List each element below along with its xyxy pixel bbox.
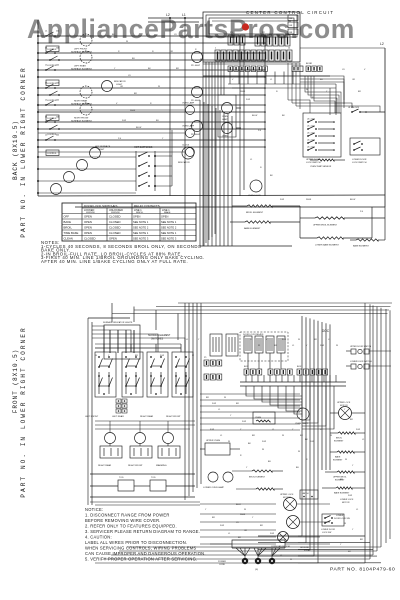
svg-text:1: 1	[215, 48, 217, 50]
svg-text:CLOCK: CLOCK	[182, 145, 190, 147]
svg-text:LOCK SWITCH: LOCK SWITCH	[352, 162, 367, 164]
svg-text:OVEN LAMP: OVEN LAMP	[182, 102, 195, 105]
svg-text:W: W	[345, 459, 347, 461]
svg-text:UL LOCK: UL LOCK	[307, 119, 316, 121]
svg-text:SEE NOTE 2: SEE NOTE 2	[133, 226, 149, 230]
svg-text:BR: BR	[360, 539, 363, 541]
svg-text:SEE NOTE 1: SEE NOTE 1	[133, 220, 149, 224]
svg-text:OVEN LAMP: OVEN LAMP	[182, 125, 195, 128]
svg-text:W-BK: W-BK	[130, 110, 136, 112]
svg-text:BROIL: BROIL	[64, 226, 73, 230]
svg-text:R-W: R-W	[320, 345, 324, 347]
svg-text:UPPER BROIL ELEMENT: UPPER BROIL ELEMENT	[313, 225, 338, 227]
svg-text:BOX: BOX	[297, 366, 302, 368]
svg-text:UL LOCK: UL LOCK	[307, 126, 316, 128]
svg-text:LEFT REAR: LEFT REAR	[112, 415, 124, 418]
svg-text:UL LOCK: UL LOCK	[307, 147, 316, 149]
svg-text:L1: L1	[356, 509, 359, 511]
svg-text:W: W	[95, 355, 97, 357]
svg-text:OPEN: OPEN	[133, 215, 140, 219]
svg-text:MOTOR: MOTOR	[340, 405, 348, 407]
svg-text:LEFT FRONT: LEFT FRONT	[85, 416, 99, 418]
svg-text:R: R	[240, 455, 242, 457]
svg-text:/BAKE: /BAKE	[164, 211, 171, 214]
svg-text:L1: L1	[292, 345, 295, 347]
svg-text:Y: Y	[340, 544, 342, 546]
svg-text:DOC: DOC	[322, 329, 330, 333]
svg-text:L1: L1	[362, 439, 365, 441]
svg-text:AppliancePartsPros.com: AppliancePartsPros.com	[27, 14, 355, 44]
svg-text:W: W	[258, 345, 260, 347]
svg-text:R: R	[306, 459, 308, 461]
svg-text:BROIL: BROIL	[336, 438, 343, 440]
svg-text:BR: BR	[358, 91, 361, 93]
svg-text:LABEL ALL WIRES PRIOR TO DISCO: LABEL ALL WIRES PRIOR TO DISCONNECTION.	[85, 540, 187, 545]
svg-text:UL LOCK: UL LOCK	[307, 133, 316, 135]
svg-text:L2: L2	[166, 13, 170, 17]
svg-text:SEE NOTE 3: SEE NOTE 3	[133, 237, 149, 241]
svg-text:R-W: R-W	[210, 429, 214, 431]
svg-text:ELEMENT: ELEMENT	[334, 441, 344, 443]
svg-text:RIGHT FRONT: RIGHT FRONT	[74, 118, 89, 120]
svg-text:RIGHT FRONT: RIGHT FRONT	[128, 465, 143, 467]
svg-text:GROUND: GROUND	[300, 547, 309, 549]
svg-text:BK-R: BK-R	[236, 504, 241, 506]
svg-text:CAN CAUSE IMPROPER AND DANGERO: CAN CAUSE IMPROPER AND DANGEROUS OPERATI…	[85, 551, 206, 556]
svg-text:LAMP: LAMP	[222, 118, 228, 121]
svg-text:W: W	[336, 345, 338, 347]
svg-text:L1: L1	[250, 339, 253, 341]
svg-text:BK: BK	[305, 439, 308, 441]
svg-text:3. SERVICER PLEASE RETURN DIAG: 3. SERVICER PLEASE RETURN DIAGRAM TO RAN…	[85, 529, 200, 534]
svg-text:OR: OR	[352, 79, 356, 81]
svg-text:W: W	[290, 559, 292, 561]
svg-text:BR: BR	[350, 419, 353, 421]
svg-text:W-BK: W-BK	[240, 514, 246, 516]
svg-text:L2: L2	[380, 42, 384, 46]
svg-text:L1: L1	[186, 339, 189, 341]
svg-text:TOD: TOD	[151, 477, 156, 479]
svg-text:R-W: R-W	[348, 495, 352, 497]
svg-text:DOOR LOCK RELAYS: DOOR LOCK RELAYS	[243, 333, 264, 336]
svg-text:UPPER LOCK: UPPER LOCK	[280, 494, 294, 496]
svg-text:L1: L1	[218, 409, 221, 411]
svg-text:BR: BR	[212, 517, 215, 519]
svg-text:PI LIGHT: PI LIGHT	[191, 134, 201, 136]
svg-text:OVEN: OVEN	[222, 116, 228, 118]
svg-text:1A: 1A	[56, 98, 59, 101]
svg-text:BACK (8X10.5): BACK (8X10.5)	[12, 120, 19, 180]
svg-text:W-BK: W-BK	[240, 91, 246, 93]
svg-text:R-W: R-W	[242, 421, 246, 423]
svg-text:L1: L1	[328, 339, 331, 341]
svg-text:PART NO. 8104P479-60: PART NO. 8104P479-60	[330, 567, 395, 573]
svg-text:OFF: OFF	[64, 215, 70, 219]
svg-text:W: W	[192, 355, 194, 357]
svg-text:BK: BK	[248, 443, 251, 445]
svg-text:W: W	[262, 449, 264, 451]
svg-text:NOTICE:: NOTICE:	[85, 507, 103, 512]
svg-text:Y: Y	[352, 529, 354, 531]
svg-text:OPEN: OPEN	[109, 237, 117, 241]
svg-text:RIGHT FRONT: RIGHT FRONT	[166, 416, 181, 418]
svg-text:SURFACE ELEMENT: SURFACE ELEMENT	[148, 334, 171, 337]
svg-text:W: W	[126, 41, 128, 43]
svg-text:L1: L1	[250, 159, 253, 161]
svg-text:LOWER OVEN LAMP: LOWER OVEN LAMP	[203, 486, 225, 489]
svg-text:LOCK SW: LOCK SW	[322, 532, 331, 534]
svg-text:BK-W: BK-W	[252, 115, 257, 117]
svg-text:OVEN: OVEN	[255, 417, 262, 419]
svg-text:Y: Y	[306, 345, 308, 347]
svg-text:P-4: P-4	[360, 211, 364, 213]
svg-text:Y: Y	[205, 509, 207, 511]
svg-text:SURFACE INDICATOR LIGHTS: SURFACE INDICATOR LIGHTS	[103, 321, 133, 324]
svg-text:SEE NOTE 3: SEE NOTE 3	[161, 237, 177, 241]
svg-text:WARMING: WARMING	[156, 464, 167, 467]
svg-text:1A: 1A	[56, 133, 59, 136]
svg-text:P1: P1	[204, 357, 207, 359]
svg-text:R-W: R-W	[310, 441, 314, 443]
svg-text:W: W	[244, 509, 246, 511]
svg-text:OPEN: OPEN	[84, 226, 92, 230]
svg-text:BR: BR	[260, 525, 263, 527]
svg-text:Y: Y	[230, 415, 232, 417]
svg-text:DOOR LOCK SW: DOOR LOCK SW	[334, 518, 350, 520]
svg-text:BR: BR	[236, 403, 239, 405]
svg-text:BROIL ELEMENT: BROIL ELEMENT	[249, 477, 266, 479]
svg-text:LOWER: LOWER	[336, 515, 344, 517]
svg-text:BOX: BOX	[244, 366, 249, 368]
svg-text:BU: BU	[296, 467, 299, 469]
svg-text:WHEN SERVICING CONTROLS, WIRIN: WHEN SERVICING CONTROLS, WIRING PROBLEMS	[85, 546, 196, 551]
svg-text:R-W: R-W	[212, 403, 216, 405]
svg-text:W: W	[228, 441, 230, 443]
svg-text:INDICATOR: INDICATOR	[114, 80, 126, 83]
svg-text:BK: BK	[282, 115, 285, 117]
svg-text:INDICATOR: INDICATOR	[178, 161, 190, 164]
svg-text:R-W: R-W	[270, 533, 274, 535]
svg-text:W: W	[344, 523, 346, 525]
svg-text:FRONT (8X10.5): FRONT (8X10.5)	[12, 349, 19, 414]
svg-text:V: V	[364, 69, 366, 71]
svg-text:BR: BR	[252, 435, 255, 437]
svg-text:BEFORE REMOVING WIRE COVER.: BEFORE REMOVING WIRE COVER.	[85, 518, 161, 523]
svg-text:BK: BK	[270, 175, 273, 177]
svg-text:BAKE: BAKE	[64, 220, 72, 224]
svg-text:CLOSED: CLOSED	[109, 226, 121, 230]
svg-text:GY: GY	[342, 69, 346, 71]
svg-text:R: R	[195, 49, 197, 51]
svg-text:W: W	[158, 86, 160, 88]
svg-text:CONV FAN MOTOR: CONV FAN MOTOR	[271, 545, 290, 548]
svg-text:CORD: CORD	[219, 564, 226, 566]
svg-text:CLOSED: CLOSED	[109, 231, 121, 235]
svg-text:SWITCHES: SWITCHES	[151, 339, 164, 341]
svg-text:W: W	[282, 435, 284, 437]
svg-text:BK-W: BK-W	[350, 199, 355, 201]
svg-text:BU: BU	[320, 79, 323, 81]
svg-text:SEE NOTE 2: SEE NOTE 2	[161, 226, 177, 230]
svg-text:N: N	[276, 91, 278, 93]
svg-text:R-W: R-W	[122, 120, 126, 122]
svg-text:UL UNLOCK: UL UNLOCK	[348, 107, 360, 109]
svg-text:PI LIGHT: PI LIGHT	[191, 65, 201, 67]
svg-text:ELEMENT: ELEMENT	[333, 460, 343, 462]
svg-text:R-W: R-W	[262, 441, 266, 443]
svg-text:RIGHT REAR: RIGHT REAR	[74, 100, 88, 103]
svg-text:W-BK: W-BK	[306, 199, 312, 201]
svg-text:BK BR: BK BR	[306, 63, 313, 65]
svg-text:CLOSED: CLOSED	[109, 215, 121, 219]
svg-text:L1: L1	[182, 13, 186, 17]
svg-text:UL LOCK: UL LOCK	[307, 140, 316, 142]
svg-text:2. REFER ONLY TO FEATURES EQUI: 2. REFER ONLY TO FEATURES EQUIPPED.	[85, 524, 177, 529]
svg-text:W: W	[330, 435, 332, 437]
svg-text:L1: L1	[270, 79, 273, 81]
svg-text:LIGHT: LIGHT	[98, 149, 105, 151]
svg-text:OPEN: OPEN	[161, 215, 168, 219]
svg-text:MOTOR: MOTOR	[342, 502, 350, 504]
svg-text:LOWER DOOR: LOWER DOOR	[352, 159, 367, 161]
svg-text:LOCK SWITCH: LOCK SWITCH	[306, 162, 321, 164]
svg-text:OVEN TEMP SENSOR: OVEN TEMP SENSOR	[310, 166, 332, 168]
svg-text:R-W: R-W	[220, 525, 224, 527]
svg-text:MOTOR: MOTOR	[283, 497, 291, 499]
svg-text:LOWER DOOR SWITCH: LOWER DOOR SWITCH	[350, 361, 372, 363]
svg-text:OVEN LIGHT: OVEN LIGHT	[295, 423, 309, 425]
svg-text:TOD: TOD	[119, 477, 124, 479]
svg-text:SEE NOTE 1: SEE NOTE 1	[161, 231, 177, 235]
svg-text:RELAY CONTACTS: RELAY CONTACTS	[134, 204, 160, 208]
svg-text:CENTER CONTROL CIRCUIT: CENTER CONTROL CIRCUIT	[246, 10, 334, 15]
svg-text:1A: 1A	[56, 63, 59, 66]
svg-text:HOT SURFACE: HOT SURFACE	[95, 145, 111, 148]
svg-text:BAKE: BAKE	[335, 456, 341, 459]
svg-text:R-W: R-W	[160, 355, 164, 357]
svg-text:BR: BR	[135, 355, 138, 357]
svg-text:BR: BR	[206, 397, 209, 399]
svg-text:PART NO. IN LOWER RIGHT CORNER: PART NO. IN LOWER RIGHT CORNER	[20, 326, 27, 497]
svg-text:(N): (N)	[255, 569, 258, 571]
svg-text:OVEN: OVEN	[222, 136, 228, 138]
svg-text:STRAP: STRAP	[304, 549, 311, 552]
svg-text:W: W	[200, 59, 202, 61]
svg-text:R-W: R-W	[246, 99, 250, 101]
svg-text:P-4: P-4	[258, 130, 262, 132]
svg-text:BK-W: BK-W	[136, 127, 141, 129]
svg-text:PART NO. IN LOWER RIGHT CORNER: PART NO. IN LOWER RIGHT CORNER	[20, 66, 27, 237]
svg-text:1. DISCONNECT RANGE FROM POWER: 1. DISCONNECT RANGE FROM POWER	[85, 513, 170, 518]
svg-text:V: V	[232, 79, 234, 81]
svg-text:CLEAN: CLEAN	[64, 237, 73, 241]
svg-text:Y: Y	[344, 409, 346, 411]
svg-text:AFTER 40 MIN. LINE 1/BAKE CYCL: AFTER 40 MIN. LINE 1/BAKE CYCLING ONLY A…	[41, 259, 188, 264]
svg-text:L1: L1	[228, 533, 231, 535]
svg-text:RIGHT REAR: RIGHT REAR	[140, 415, 154, 418]
svg-text:W: W	[306, 89, 308, 91]
svg-text:OPEN: OPEN	[84, 220, 92, 224]
svg-text:LATCH: LATCH	[302, 492, 309, 495]
svg-text:R-W: R-W	[282, 339, 286, 341]
svg-text:OPEN: OPEN	[84, 231, 92, 235]
svg-text:BAKE ELEMENT: BAKE ELEMENT	[353, 245, 369, 248]
svg-text:N: N	[260, 167, 262, 169]
svg-text:BU: BU	[268, 461, 271, 463]
svg-text:Y: Y	[252, 517, 254, 519]
svg-text:RIGHT REAR: RIGHT REAR	[98, 464, 112, 467]
svg-text:LEFT REAR: LEFT REAR	[74, 65, 86, 68]
svg-text:HOT SWITCHES: HOT SWITCHES	[134, 146, 153, 149]
svg-text:CLOSED: CLOSED	[84, 237, 96, 241]
svg-text:5. VERIFY PROPER OPERATION AFT: 5. VERIFY PROPER OPERATION AFTER SERVICI…	[85, 557, 197, 562]
svg-text:OPEN: OPEN	[84, 215, 92, 219]
svg-text:UPPER OVEN: UPPER OVEN	[206, 440, 220, 442]
svg-text:BROIL ELEMENT: BROIL ELEMENT	[246, 212, 264, 214]
svg-text:Y: Y	[198, 339, 200, 341]
svg-text:Y: Y	[246, 467, 248, 469]
svg-text:BR: BR	[314, 339, 317, 341]
svg-text:UPPER DOOR SWITCH: UPPER DOOR SWITCH	[350, 346, 372, 348]
svg-text:UPPER LOCK: UPPER LOCK	[337, 402, 351, 404]
svg-text:LEFT FRONT: LEFT FRONT	[74, 49, 88, 51]
svg-text:W: W	[298, 339, 300, 341]
svg-text:DOOR LOCK SWITCHES: DOOR LOCK SWITCHES	[84, 204, 117, 208]
svg-text:SEE NOTE 1: SEE NOTE 1	[133, 231, 149, 235]
svg-text:TIME BAKE: TIME BAKE	[64, 231, 79, 235]
svg-text:SEE NOTE 1: SEE NOTE 1	[161, 220, 177, 224]
svg-text:OVEN DOOR: OVEN DOOR	[248, 195, 261, 197]
svg-text:4. CAUTION:: 4. CAUTION:	[85, 535, 112, 540]
svg-text:BAKE ELEMENT: BAKE ELEMENT	[244, 227, 261, 230]
svg-text:14: 14	[288, 48, 291, 50]
svg-text:LOWER DOOR: LOWER DOOR	[321, 529, 335, 531]
svg-text:L1: L1	[220, 435, 223, 437]
svg-text:Y: Y	[352, 465, 354, 467]
svg-text:W: W	[298, 451, 300, 453]
svg-text:LOWER LOCK: LOWER LOCK	[340, 499, 354, 501]
svg-text:CONTROL: CONTROL	[47, 153, 58, 155]
svg-text:POWER: POWER	[218, 561, 226, 563]
svg-text:BR: BR	[300, 435, 303, 437]
svg-text:/BROIL: /BROIL	[136, 212, 144, 214]
svg-text:R-W: R-W	[280, 199, 284, 201]
svg-text:W: W	[224, 397, 226, 399]
svg-text:R-W: R-W	[356, 429, 360, 431]
svg-text:LOWER BAKE ELEMENT: LOWER BAKE ELEMENT	[315, 244, 340, 247]
svg-text:CLOSED: CLOSED	[109, 220, 121, 224]
